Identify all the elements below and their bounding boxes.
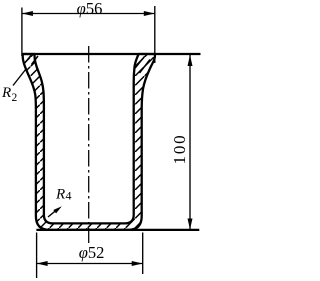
radius label R4 text [55, 187, 72, 203]
dimension phi52 extension line right [142, 233, 144, 275]
dimension phi52 line [37, 263, 143, 265]
bottom line with right extension [36, 229, 199, 231]
dimension 100 text [170, 134, 189, 165]
dimension phi56 text [77, 0, 103, 18]
radius label R4 leader [48, 211, 56, 217]
extra rim hatch strokes [25, 55, 150, 73]
dimension phi52 left arrow [37, 261, 48, 266]
cup cross-section wall (hatched) [23, 54, 155, 230]
dimension phi52 extension line left [36, 233, 38, 279]
dimension phi56 extension line right [154, 6, 156, 63]
dimension 100 line [189, 55, 191, 230]
dimension phi52 right arrow [132, 261, 143, 266]
radius label R2 leader [13, 69, 26, 86]
dimension phi56 left arrow [22, 11, 33, 16]
svg-text:φ52: φ52 [79, 243, 105, 262]
svg-text:R: R [55, 187, 65, 203]
top surface line [22, 53, 201, 55]
svg-text:100: 100 [170, 134, 189, 165]
dimension phi56 right arrow [144, 11, 155, 16]
svg-text:R: R [1, 85, 11, 101]
radius label R4 arrow [53, 206, 62, 213]
dimension 100 bottom arrow [188, 219, 193, 230]
svg-text:φ56: φ56 [77, 0, 103, 18]
center line [88, 46, 90, 243]
dimension phi52 text [79, 243, 105, 262]
dimension phi56 line [22, 13, 155, 15]
svg-text:4: 4 [66, 189, 72, 203]
dimension phi56 extension line left [21, 8, 23, 57]
radius label R2 text [1, 85, 18, 104]
dimension 100 top arrow [188, 55, 193, 66]
svg-text:2: 2 [12, 92, 18, 104]
